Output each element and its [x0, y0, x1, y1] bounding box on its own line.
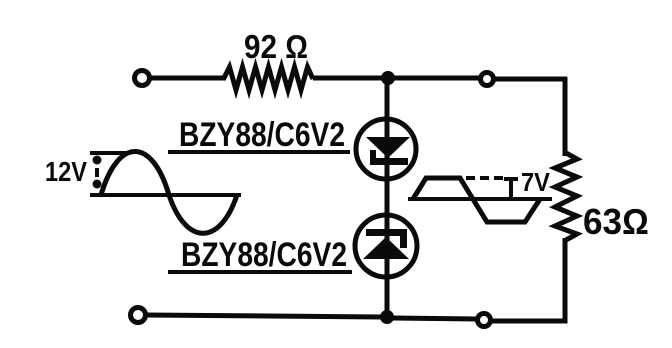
terminal output top [481, 73, 494, 86]
label D2 BZY88/C6V2 [168, 236, 352, 274]
input waveform axis [90, 193, 241, 197]
label D1 BZY88/C6V2 [168, 116, 350, 154]
output waveform axis [408, 197, 552, 201]
junction node top [381, 71, 395, 85]
svg-text:63Ω: 63Ω [583, 201, 649, 242]
terminal input top-left [135, 71, 150, 86]
wire top terminal to right rail [494, 77, 567, 82]
svg-text:BZY88/C6V2: BZY88/C6V2 [179, 116, 345, 154]
dimension dotted line 12V [93, 156, 102, 189]
wire bottom left [146, 315, 381, 317]
zener diode D1 BZY88/C6V2 (top) [356, 119, 416, 179]
svg-text:12V: 12V [45, 156, 87, 187]
wire right rail top [563, 77, 568, 156]
dimension line 7V [504, 179, 518, 199]
terminal output bottom [478, 314, 491, 327]
output clipped waveform [413, 178, 540, 222]
dashed clip level line [466, 176, 505, 180]
dimension tick 12V top [90, 151, 128, 155]
svg-text:BZY88/C6V2: BZY88/C6V2 [181, 236, 347, 274]
terminal input bottom-left [131, 308, 146, 323]
wire diode branch vertical [385, 78, 390, 317]
input sine wave [101, 152, 237, 234]
svg-text:92 Ω: 92 Ω [244, 28, 308, 65]
wire top-left to resistor [150, 76, 226, 81]
resistor R2 63 ohm vertical [555, 153, 577, 240]
svg-text:7V: 7V [521, 167, 551, 197]
wire right rail bottom [492, 238, 565, 321]
wire bottom middle [392, 318, 478, 319]
junction node bottom [380, 310, 394, 324]
resistor R1 92 ohm [224, 67, 313, 90]
wire resistor to junction and to output terminal [313, 76, 480, 81]
zener diode D2 BZY88/C6V2 (bottom) [355, 215, 417, 277]
